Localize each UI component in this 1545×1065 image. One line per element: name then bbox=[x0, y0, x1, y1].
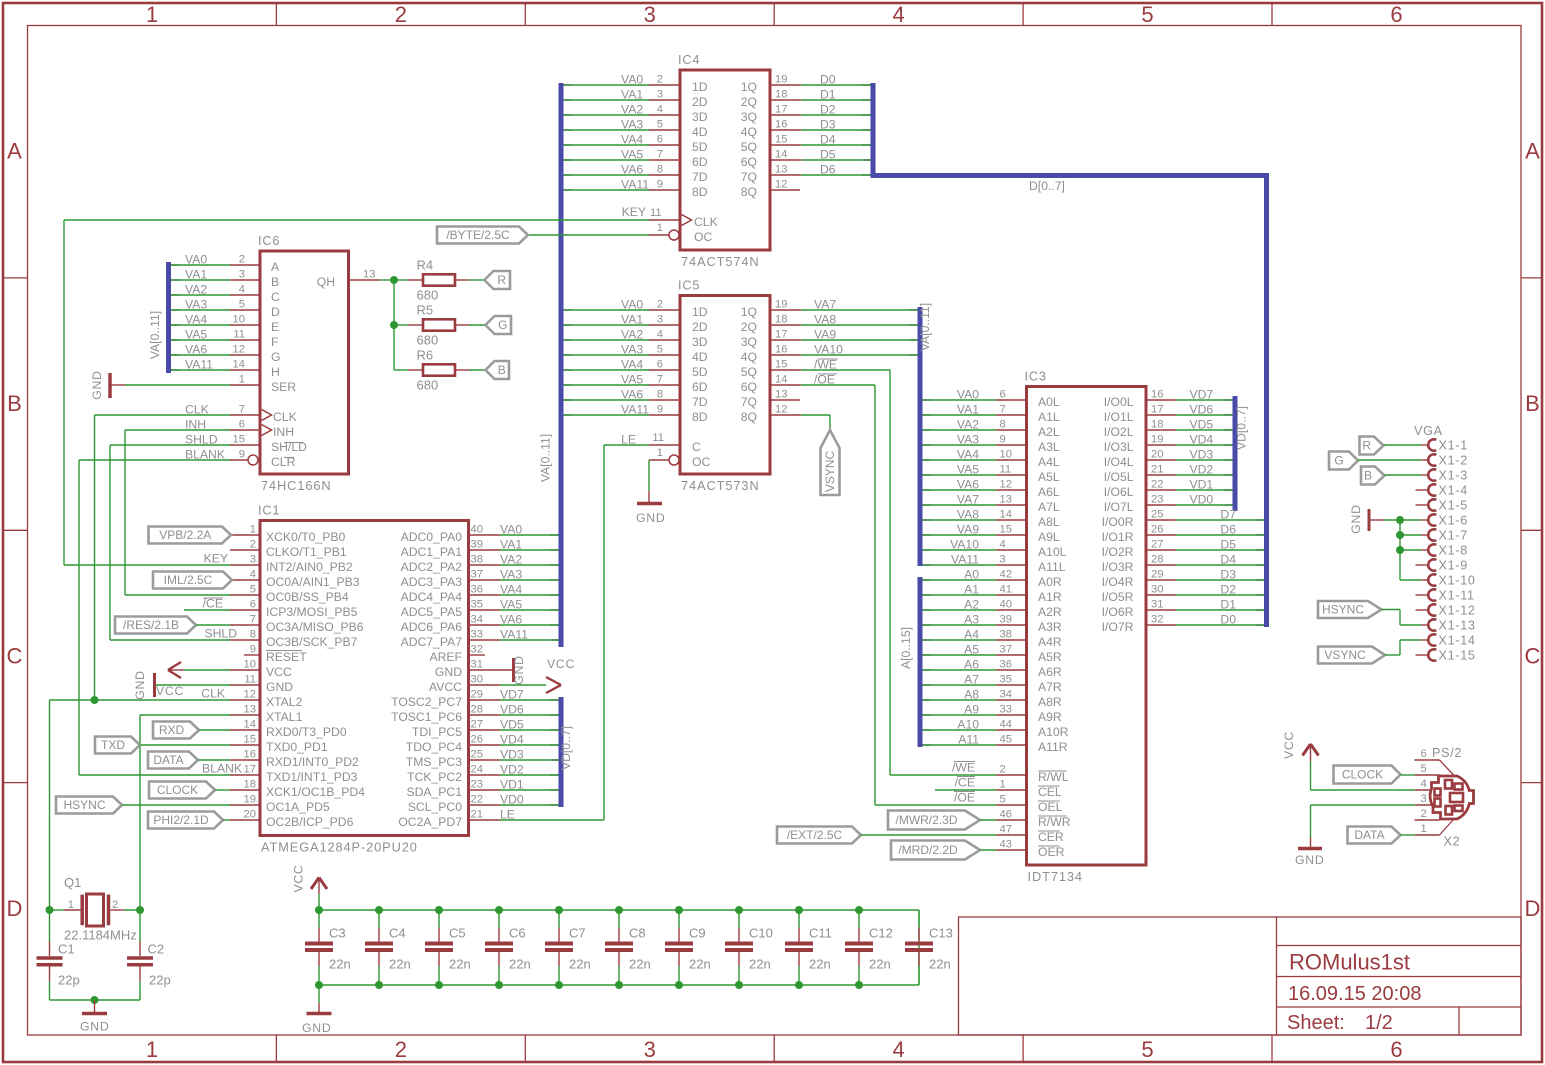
svg-text:9: 9 bbox=[657, 404, 663, 416]
svg-text:TOSC1_PC6: TOSC1_PC6 bbox=[391, 710, 462, 724]
svg-text:/CE: /CE bbox=[203, 597, 223, 611]
svg-text:8: 8 bbox=[657, 389, 663, 401]
svg-text:VCC: VCC bbox=[156, 684, 184, 698]
svg-text:I/O0L: I/O0L bbox=[1104, 395, 1134, 409]
svg-text:H: H bbox=[271, 365, 280, 379]
svg-text:39: 39 bbox=[1000, 614, 1012, 626]
svg-text:31: 31 bbox=[1151, 599, 1163, 611]
svg-text:XTAL2: XTAL2 bbox=[266, 695, 303, 709]
svg-text:D[0..7]: D[0..7] bbox=[1029, 179, 1065, 193]
svg-text:C5: C5 bbox=[449, 926, 466, 941]
svg-text:40: 40 bbox=[1000, 599, 1012, 611]
svg-text:16: 16 bbox=[775, 119, 787, 131]
svg-text:22p: 22p bbox=[149, 973, 171, 988]
svg-text:22: 22 bbox=[471, 794, 483, 806]
svg-text:IDT7134: IDT7134 bbox=[1028, 869, 1083, 884]
svg-text:VA0: VA0 bbox=[621, 73, 643, 87]
svg-text:RESET: RESET bbox=[266, 650, 307, 664]
svg-text:C13: C13 bbox=[929, 926, 953, 941]
svg-text:A8: A8 bbox=[964, 688, 979, 702]
svg-text:3: 3 bbox=[657, 314, 663, 326]
svg-text:I/O3L: I/O3L bbox=[1104, 440, 1134, 454]
svg-text:43: 43 bbox=[1000, 839, 1012, 851]
svg-text:26: 26 bbox=[1151, 524, 1163, 536]
svg-text:33: 33 bbox=[471, 629, 483, 641]
svg-text:1: 1 bbox=[250, 524, 256, 536]
svg-text:41: 41 bbox=[1000, 584, 1012, 596]
svg-text:5: 5 bbox=[1141, 1037, 1153, 1062]
svg-text:PS/2: PS/2 bbox=[1432, 746, 1462, 760]
svg-text:VA10: VA10 bbox=[950, 538, 979, 552]
svg-text:SER: SER bbox=[271, 380, 296, 394]
svg-text:IML/2.5C: IML/2.5C bbox=[164, 573, 213, 587]
svg-text:D5: D5 bbox=[820, 148, 836, 162]
svg-text:4: 4 bbox=[657, 329, 663, 341]
svg-text:OC3A/MISO_PB6: OC3A/MISO_PB6 bbox=[266, 620, 364, 634]
svg-text:VA11: VA11 bbox=[621, 178, 649, 192]
svg-text:A6: A6 bbox=[964, 658, 979, 672]
svg-text:10: 10 bbox=[233, 314, 245, 326]
svg-text:VA4: VA4 bbox=[957, 448, 979, 462]
svg-text:38: 38 bbox=[1000, 629, 1012, 641]
svg-text:23: 23 bbox=[1151, 494, 1163, 506]
svg-text:30: 30 bbox=[471, 674, 483, 686]
svg-text:CLK: CLK bbox=[201, 687, 225, 701]
svg-text:1: 1 bbox=[1000, 779, 1006, 791]
svg-text:VA5: VA5 bbox=[957, 463, 979, 477]
svg-text:5: 5 bbox=[657, 119, 663, 131]
svg-text:30: 30 bbox=[1151, 584, 1163, 596]
svg-text:74ACT573N: 74ACT573N bbox=[681, 478, 760, 493]
svg-text:VD0: VD0 bbox=[500, 793, 524, 807]
svg-text:OC0A/AIN1_PB3: OC0A/AIN1_PB3 bbox=[266, 575, 360, 589]
svg-text:3: 3 bbox=[239, 269, 245, 281]
svg-text:6: 6 bbox=[239, 419, 245, 431]
svg-text:/MWR/2.3D: /MWR/2.3D bbox=[895, 813, 957, 827]
svg-text:A5R: A5R bbox=[1038, 650, 1062, 664]
svg-text:X1-9: X1-9 bbox=[1439, 559, 1468, 573]
svg-text:F: F bbox=[271, 335, 278, 349]
svg-text:15: 15 bbox=[1000, 524, 1012, 536]
svg-text:46: 46 bbox=[1000, 809, 1012, 821]
svg-text:VA8: VA8 bbox=[957, 508, 979, 522]
svg-text:A6R: A6R bbox=[1038, 665, 1062, 679]
svg-text:LE: LE bbox=[500, 808, 515, 822]
svg-text:29: 29 bbox=[1151, 569, 1163, 581]
svg-text:27: 27 bbox=[1151, 539, 1163, 551]
svg-text:OER: OER bbox=[1038, 845, 1065, 859]
svg-text:VA6: VA6 bbox=[621, 163, 643, 177]
svg-text:A4: A4 bbox=[964, 628, 979, 642]
svg-text:19: 19 bbox=[775, 74, 787, 86]
svg-text:ADC5_PA5: ADC5_PA5 bbox=[401, 605, 463, 619]
svg-text:34: 34 bbox=[471, 614, 483, 626]
svg-text:ROMulus1st: ROMulus1st bbox=[1289, 950, 1410, 975]
svg-text:VA6: VA6 bbox=[185, 343, 207, 357]
svg-text:20: 20 bbox=[244, 809, 256, 821]
svg-text:15: 15 bbox=[244, 734, 256, 746]
svg-text:32: 32 bbox=[1151, 614, 1163, 626]
svg-text:3: 3 bbox=[1421, 793, 1427, 805]
svg-text:VD1: VD1 bbox=[1190, 478, 1214, 492]
svg-text:DATA: DATA bbox=[1354, 828, 1384, 842]
svg-text:74ACT574N: 74ACT574N bbox=[681, 254, 760, 269]
svg-text:35: 35 bbox=[1000, 674, 1012, 686]
svg-text:ICP3/MOSI_PB5: ICP3/MOSI_PB5 bbox=[266, 605, 358, 619]
svg-text:8: 8 bbox=[1000, 419, 1006, 431]
svg-text:VA1: VA1 bbox=[621, 88, 643, 102]
svg-text:4: 4 bbox=[1000, 539, 1006, 551]
svg-text:5: 5 bbox=[239, 299, 245, 311]
svg-text:/EXT/2.5C: /EXT/2.5C bbox=[787, 828, 843, 842]
svg-text:A2: A2 bbox=[964, 598, 979, 612]
svg-text:VD2: VD2 bbox=[500, 763, 524, 777]
svg-text:VGA: VGA bbox=[1414, 424, 1443, 438]
svg-text:26: 26 bbox=[471, 734, 483, 746]
svg-text:25: 25 bbox=[471, 749, 483, 761]
svg-text:22n: 22n bbox=[389, 957, 411, 972]
svg-text:I/O5L: I/O5L bbox=[1104, 470, 1134, 484]
svg-text:22n: 22n bbox=[569, 957, 591, 972]
svg-text:OC3B/SCK_PB7: OC3B/SCK_PB7 bbox=[266, 635, 358, 649]
svg-text:XTAL1: XTAL1 bbox=[266, 710, 303, 724]
svg-text:AREF: AREF bbox=[429, 650, 462, 664]
svg-text:SCL_PC0: SCL_PC0 bbox=[408, 800, 462, 814]
svg-text:C3: C3 bbox=[329, 926, 346, 941]
svg-text:VA10: VA10 bbox=[814, 343, 843, 357]
svg-text:13: 13 bbox=[1000, 494, 1012, 506]
svg-text:I/O5R: I/O5R bbox=[1102, 590, 1134, 604]
svg-text:17: 17 bbox=[244, 764, 256, 776]
svg-text:1: 1 bbox=[146, 1037, 158, 1062]
svg-text:2: 2 bbox=[657, 74, 663, 86]
svg-text:18: 18 bbox=[1151, 419, 1163, 431]
svg-text:VA5: VA5 bbox=[621, 373, 643, 387]
svg-text:2D: 2D bbox=[692, 320, 708, 334]
svg-text:CLK: CLK bbox=[273, 410, 297, 424]
svg-text:VA1: VA1 bbox=[185, 268, 207, 282]
svg-text:TOSC2_PC7: TOSC2_PC7 bbox=[391, 695, 462, 709]
svg-text:15: 15 bbox=[775, 134, 787, 146]
svg-text:TXD1/INT1_PD3: TXD1/INT1_PD3 bbox=[266, 770, 358, 784]
svg-text:18: 18 bbox=[775, 314, 787, 326]
svg-text:22n: 22n bbox=[629, 957, 651, 972]
svg-text:22n: 22n bbox=[329, 957, 351, 972]
svg-text:7D: 7D bbox=[692, 170, 708, 184]
svg-text:/WE: /WE bbox=[952, 761, 975, 775]
svg-text:X1-4: X1-4 bbox=[1439, 484, 1468, 498]
svg-text:19: 19 bbox=[244, 794, 256, 806]
svg-text:C11: C11 bbox=[809, 926, 832, 941]
svg-text:A1R: A1R bbox=[1038, 590, 1062, 604]
svg-text:24: 24 bbox=[471, 764, 483, 776]
svg-text:VA2: VA2 bbox=[621, 328, 643, 342]
svg-text:C7: C7 bbox=[569, 926, 586, 941]
svg-text:4: 4 bbox=[1421, 778, 1427, 790]
svg-text:22: 22 bbox=[1151, 479, 1163, 491]
svg-text:6Q: 6Q bbox=[741, 155, 757, 169]
svg-text:6D: 6D bbox=[692, 380, 708, 394]
svg-text:16: 16 bbox=[244, 749, 256, 761]
svg-text:4D: 4D bbox=[692, 350, 708, 364]
svg-text:VA7: VA7 bbox=[957, 493, 979, 507]
svg-text:B: B bbox=[271, 275, 279, 289]
svg-text:C6: C6 bbox=[509, 926, 526, 941]
svg-text:I/O3R: I/O3R bbox=[1102, 560, 1134, 574]
svg-text:ADC3_PA3: ADC3_PA3 bbox=[401, 575, 463, 589]
svg-text:IC1: IC1 bbox=[258, 503, 280, 518]
svg-text:D0: D0 bbox=[820, 73, 836, 87]
svg-text:VA2: VA2 bbox=[185, 283, 207, 297]
svg-text:4: 4 bbox=[893, 1037, 905, 1062]
svg-text:R: R bbox=[497, 273, 506, 287]
svg-text:13: 13 bbox=[775, 164, 787, 176]
svg-text:VA0: VA0 bbox=[500, 523, 522, 537]
svg-text:34: 34 bbox=[1000, 689, 1012, 701]
svg-text:44: 44 bbox=[1000, 719, 1012, 731]
svg-text:19: 19 bbox=[1151, 434, 1163, 446]
svg-text:12: 12 bbox=[1000, 479, 1012, 491]
svg-text:14: 14 bbox=[233, 359, 245, 371]
svg-text:6: 6 bbox=[1390, 2, 1402, 27]
svg-text:VA0: VA0 bbox=[957, 388, 979, 402]
svg-text:32: 32 bbox=[471, 644, 483, 656]
svg-text:VD4: VD4 bbox=[1190, 433, 1214, 447]
svg-text:VA1: VA1 bbox=[500, 538, 522, 552]
svg-text:VCC: VCC bbox=[292, 864, 306, 892]
svg-text:I/O1L: I/O1L bbox=[1104, 410, 1134, 424]
svg-text:VD1: VD1 bbox=[500, 778, 524, 792]
svg-text:VA0: VA0 bbox=[185, 253, 207, 267]
svg-text:G: G bbox=[1334, 454, 1343, 468]
svg-text:6: 6 bbox=[657, 134, 663, 146]
svg-text:3: 3 bbox=[644, 2, 656, 27]
svg-text:GND: GND bbox=[435, 665, 462, 679]
svg-text:8: 8 bbox=[657, 164, 663, 176]
svg-text:/OE: /OE bbox=[954, 791, 975, 805]
svg-text:C: C bbox=[271, 290, 280, 304]
svg-text:36: 36 bbox=[471, 584, 483, 596]
svg-text:VPB/2.2A: VPB/2.2A bbox=[159, 528, 211, 542]
svg-text:CLOCK: CLOCK bbox=[1342, 768, 1383, 782]
svg-text:A9R: A9R bbox=[1038, 710, 1062, 724]
svg-text:GND: GND bbox=[133, 670, 147, 699]
svg-text:VD6: VD6 bbox=[500, 703, 524, 717]
svg-text:I/O4L: I/O4L bbox=[1104, 455, 1134, 469]
svg-text:22n: 22n bbox=[929, 957, 951, 972]
svg-text:7: 7 bbox=[250, 614, 256, 626]
svg-text:21: 21 bbox=[1151, 464, 1163, 476]
svg-text:VA5: VA5 bbox=[621, 148, 643, 162]
svg-text:A10: A10 bbox=[957, 718, 979, 732]
svg-text:D7: D7 bbox=[1220, 508, 1236, 522]
svg-text:VCC: VCC bbox=[1282, 731, 1296, 759]
svg-text:5Q: 5Q bbox=[741, 365, 757, 379]
svg-text:GND: GND bbox=[266, 680, 293, 694]
svg-text:4: 4 bbox=[657, 104, 663, 116]
svg-text:10: 10 bbox=[244, 659, 256, 671]
svg-text:17: 17 bbox=[1151, 404, 1163, 416]
svg-text:I/O6L: I/O6L bbox=[1104, 485, 1134, 499]
svg-text:VSYNC: VSYNC bbox=[823, 450, 837, 492]
svg-text:5: 5 bbox=[1421, 763, 1427, 775]
svg-text:I/O2R: I/O2R bbox=[1102, 545, 1134, 559]
svg-text:VA3: VA3 bbox=[621, 343, 643, 357]
svg-text:14: 14 bbox=[775, 149, 787, 161]
svg-text:VA11: VA11 bbox=[500, 628, 528, 642]
svg-text:15: 15 bbox=[775, 359, 787, 371]
svg-text:GND: GND bbox=[302, 1021, 331, 1035]
svg-text:R4: R4 bbox=[417, 258, 434, 273]
svg-text:6: 6 bbox=[1000, 389, 1006, 401]
svg-text:Q1: Q1 bbox=[64, 875, 81, 890]
svg-text:KEY: KEY bbox=[622, 205, 646, 219]
svg-text:D4: D4 bbox=[820, 133, 836, 147]
svg-text:INT2/AIN0_PB2: INT2/AIN0_PB2 bbox=[266, 560, 353, 574]
svg-text:7: 7 bbox=[239, 404, 245, 416]
svg-text:3: 3 bbox=[250, 554, 256, 566]
svg-text:R/WR: R/WR bbox=[1038, 815, 1071, 829]
svg-text:X1-2: X1-2 bbox=[1439, 454, 1468, 468]
svg-text:VA6: VA6 bbox=[621, 388, 643, 402]
svg-text:1: 1 bbox=[657, 447, 663, 459]
svg-text:C2: C2 bbox=[148, 942, 165, 957]
svg-text:9: 9 bbox=[657, 179, 663, 191]
svg-text:9: 9 bbox=[239, 449, 245, 461]
svg-text:1Q: 1Q bbox=[741, 305, 757, 319]
svg-text:2D: 2D bbox=[692, 95, 708, 109]
svg-text:3Q: 3Q bbox=[741, 110, 757, 124]
svg-text:OC1A_PD5: OC1A_PD5 bbox=[266, 800, 330, 814]
svg-text:RXD0/T3_PD0: RXD0/T3_PD0 bbox=[266, 725, 347, 739]
svg-text:VA2: VA2 bbox=[500, 553, 522, 567]
svg-text:4: 4 bbox=[893, 2, 905, 27]
svg-text:/CE: /CE bbox=[955, 776, 975, 790]
svg-text:VA9: VA9 bbox=[957, 523, 979, 537]
svg-text:7Q: 7Q bbox=[741, 395, 757, 409]
svg-text:2: 2 bbox=[1000, 764, 1006, 776]
svg-text:A1: A1 bbox=[964, 583, 979, 597]
svg-text:X1-10: X1-10 bbox=[1439, 574, 1476, 588]
svg-text:22n: 22n bbox=[689, 957, 711, 972]
svg-text:12: 12 bbox=[244, 689, 256, 701]
svg-text:X1-12: X1-12 bbox=[1439, 604, 1476, 618]
svg-text:5: 5 bbox=[250, 584, 256, 596]
svg-text:3D: 3D bbox=[692, 110, 708, 124]
svg-text:6: 6 bbox=[657, 359, 663, 371]
svg-text:D2: D2 bbox=[1220, 583, 1236, 597]
svg-text:13: 13 bbox=[363, 269, 375, 281]
svg-text:47: 47 bbox=[1000, 824, 1012, 836]
svg-text:C9: C9 bbox=[689, 926, 706, 941]
svg-text:6D: 6D bbox=[692, 155, 708, 169]
svg-text:4: 4 bbox=[239, 284, 245, 296]
svg-text:I/O4R: I/O4R bbox=[1102, 575, 1134, 589]
svg-text:15: 15 bbox=[233, 434, 245, 446]
svg-text:5Q: 5Q bbox=[741, 140, 757, 154]
svg-text:I/O0R: I/O0R bbox=[1102, 515, 1134, 529]
svg-text:TXD: TXD bbox=[101, 738, 125, 752]
svg-text:A11: A11 bbox=[958, 733, 979, 747]
svg-text:A3: A3 bbox=[964, 613, 979, 627]
svg-text:C4: C4 bbox=[389, 926, 406, 941]
svg-text:GND: GND bbox=[80, 1020, 109, 1034]
svg-text:D1: D1 bbox=[820, 88, 836, 102]
svg-text:22n: 22n bbox=[449, 957, 471, 972]
svg-text:D0: D0 bbox=[1220, 613, 1236, 627]
svg-text:VD5: VD5 bbox=[500, 718, 524, 732]
svg-text:X1-3: X1-3 bbox=[1439, 469, 1468, 483]
svg-text:16: 16 bbox=[1151, 389, 1163, 401]
svg-text:G: G bbox=[498, 318, 507, 332]
svg-text:CER: CER bbox=[1038, 830, 1064, 844]
svg-text:A5L: A5L bbox=[1038, 470, 1060, 484]
svg-text:6: 6 bbox=[1421, 748, 1427, 760]
svg-text:17: 17 bbox=[775, 329, 787, 341]
svg-text:VA3: VA3 bbox=[500, 568, 522, 582]
svg-text:IC6: IC6 bbox=[258, 233, 280, 248]
svg-text:VA2: VA2 bbox=[957, 418, 979, 432]
svg-text:VD2: VD2 bbox=[1190, 463, 1214, 477]
svg-text:VA0: VA0 bbox=[621, 298, 643, 312]
svg-text:25: 25 bbox=[1151, 509, 1163, 521]
svg-text:1Q: 1Q bbox=[741, 80, 757, 94]
svg-text:OEL: OEL bbox=[1038, 800, 1063, 814]
svg-text:7D: 7D bbox=[692, 395, 708, 409]
svg-text:27: 27 bbox=[471, 719, 483, 731]
svg-text:45: 45 bbox=[1000, 734, 1012, 746]
svg-text:IC5: IC5 bbox=[678, 278, 700, 293]
svg-text:VA3: VA3 bbox=[185, 298, 207, 312]
svg-text:OC2B/ICP_PD6: OC2B/ICP_PD6 bbox=[266, 815, 354, 829]
svg-text:VA[0..11]: VA[0..11] bbox=[539, 434, 553, 482]
svg-text:X1-5: X1-5 bbox=[1439, 499, 1468, 513]
svg-text:11: 11 bbox=[1000, 464, 1012, 476]
svg-text:OC2A_PD7: OC2A_PD7 bbox=[398, 815, 462, 829]
svg-text:VA4: VA4 bbox=[500, 583, 522, 597]
svg-text:D3: D3 bbox=[1220, 568, 1236, 582]
svg-text:17: 17 bbox=[775, 104, 787, 116]
svg-text:GND: GND bbox=[90, 370, 104, 399]
svg-text:42: 42 bbox=[1000, 569, 1012, 581]
svg-text:37: 37 bbox=[1000, 644, 1012, 656]
svg-text:VA11: VA11 bbox=[185, 358, 213, 372]
svg-text:8Q: 8Q bbox=[741, 185, 757, 199]
svg-text:R5: R5 bbox=[417, 303, 434, 318]
svg-text:X1-1: X1-1 bbox=[1439, 439, 1468, 453]
svg-text:TDI_PC5: TDI_PC5 bbox=[412, 725, 462, 739]
svg-text:12: 12 bbox=[775, 179, 787, 191]
svg-text:680: 680 bbox=[417, 333, 439, 348]
svg-text:6: 6 bbox=[250, 599, 256, 611]
svg-text:3: 3 bbox=[657, 89, 663, 101]
svg-text:11: 11 bbox=[233, 329, 245, 341]
svg-text:9: 9 bbox=[1000, 434, 1006, 446]
svg-text:VA9: VA9 bbox=[814, 328, 836, 342]
svg-text:2Q: 2Q bbox=[741, 95, 757, 109]
svg-text:2: 2 bbox=[250, 539, 256, 551]
svg-text:5: 5 bbox=[657, 344, 663, 356]
svg-text:A3R: A3R bbox=[1038, 620, 1062, 634]
svg-text:A1L: A1L bbox=[1038, 410, 1060, 424]
svg-text:R/WL: R/WL bbox=[1038, 770, 1069, 784]
svg-text:1: 1 bbox=[146, 2, 158, 27]
svg-text:A8R: A8R bbox=[1038, 695, 1062, 709]
svg-text:XCK0/T0_PB0: XCK0/T0_PB0 bbox=[266, 530, 345, 544]
svg-text:16.09.15 20:08: 16.09.15 20:08 bbox=[1288, 983, 1421, 1005]
svg-text:R: R bbox=[1362, 439, 1371, 453]
svg-text:680: 680 bbox=[417, 288, 439, 303]
